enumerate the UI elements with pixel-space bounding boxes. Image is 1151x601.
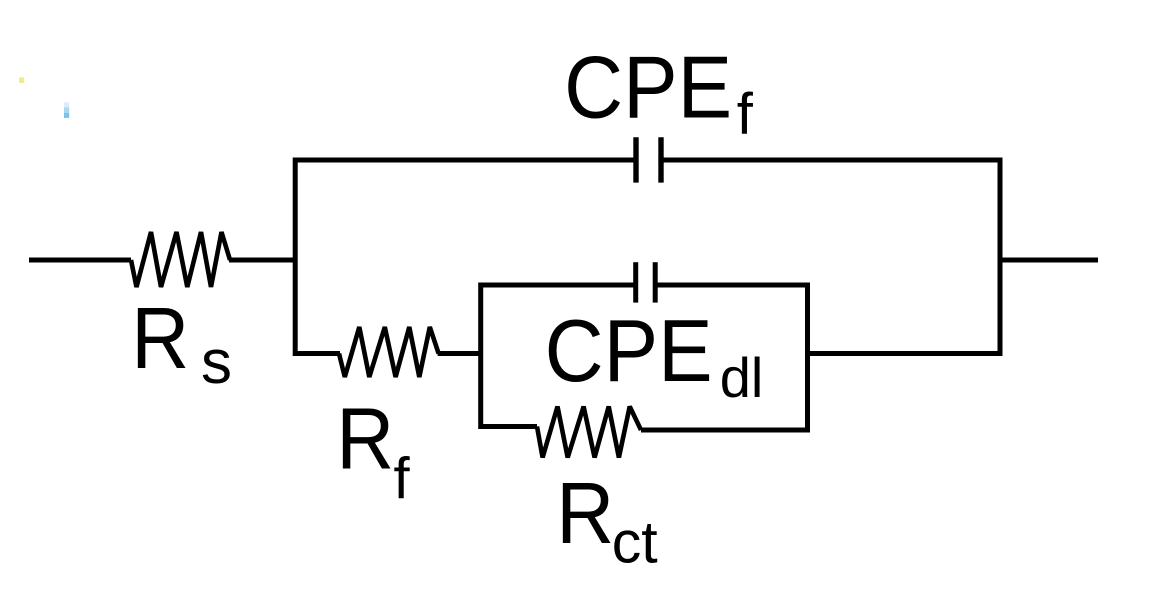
svg-text:CPE: CPE [564,38,732,137]
svg-text:R: R [556,465,614,562]
svg-text:ct: ct [612,510,658,576]
svg-text:CPE: CPE [545,301,713,400]
svg-text:f: f [737,82,754,147]
svg-text:R: R [336,391,394,488]
svg-text:R: R [131,290,189,387]
svg-text:f: f [394,447,411,512]
svg-text:dl: dl [720,346,764,409]
svg-text:s: s [201,328,232,397]
